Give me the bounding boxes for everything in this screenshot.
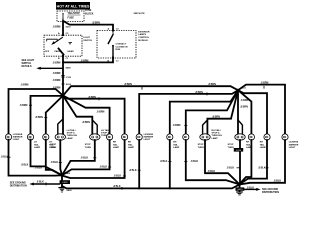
wire G2 to ground <box>239 184 241 191</box>
wire J1 to lamp E5 <box>63 96 92 137</box>
lamp E10 tail <box>183 133 189 140</box>
lamp E7 tail <box>122 133 128 140</box>
power header HOT AT ALL TIMES <box>56 2 90 10</box>
svg-text:STOP: STOP <box>85 144 91 146</box>
wire J2 to lamp E14 <box>238 90 267 137</box>
pin A C2 at module top <box>108 27 120 31</box>
svg-text:DISTRIBUTION: DISTRIBUTION <box>10 185 27 188</box>
wire lamp E1 to ground junction G1 <box>9 140 63 176</box>
svg-text:TAIL: TAIL <box>34 143 39 146</box>
wire lamp E11 to ground junction G2 <box>205 140 240 184</box>
svg-text:LAMPS: LAMPS <box>138 33 146 36</box>
wire J2 trunk to lamp E12 <box>237 90 239 134</box>
wire J1 to lamp E3 <box>46 96 63 137</box>
svg-text:LAMP: LAMP <box>128 146 135 149</box>
wire label .8 BRN <box>195 91 207 96</box>
lamp E3 label <box>49 142 56 149</box>
lamp E13 label <box>246 142 253 149</box>
svg-text:.8 BRN: .8 BRN <box>21 84 29 87</box>
switch position labels <box>45 50 74 53</box>
wire G1 to ground <box>61 175 63 187</box>
svg-text:LAMP: LAMP <box>212 137 219 140</box>
lamp E4 dual tail/stop <box>55 134 65 140</box>
wire J2 to lamp E13 <box>238 90 251 137</box>
svg-text:.8 BLK: .8 BLK <box>51 161 59 164</box>
lamp E5 stop/turn note <box>85 144 91 149</box>
svg-text:LIGHT: LIGHT <box>13 139 20 141</box>
light switch dashed box <box>44 35 82 56</box>
svg-text:.8 BRN: .8 BRN <box>241 99 249 102</box>
wire label .8 BLK <box>227 166 240 169</box>
wire J1 to lamp E2 <box>31 96 64 137</box>
wire lamp E4 to ground junction G1 <box>60 140 62 175</box>
see ground distribution note right <box>262 188 279 194</box>
wire main trunk down <box>62 56 64 96</box>
svg-text:.8 BRN: .8 BRN <box>35 116 43 119</box>
wire J2 to lamp E8 <box>139 90 238 137</box>
svg-text:G410: G410 <box>237 189 243 191</box>
lamp E1 label <box>13 134 23 141</box>
svg-text:TURN SIG: TURN SIG <box>67 135 78 137</box>
svg-text:LH TAIL/: LH TAIL/ <box>67 129 76 132</box>
svg-text:.8 BRN: .8 BRN <box>97 110 105 113</box>
svg-text:.8 BRN: .8 BRN <box>53 79 61 82</box>
svg-text:MARKER: MARKER <box>289 143 299 146</box>
svg-text:TAIL: TAIL <box>260 143 265 146</box>
svg-text:.8 BLK: .8 BLK <box>258 166 266 169</box>
see ground distribution note left <box>10 181 27 187</box>
wire lamp E2 to ground junction G1 <box>31 140 63 176</box>
wire label .8 BLK <box>129 169 141 172</box>
svg-text:.8 BLK: .8 BLK <box>113 185 121 188</box>
wire fuse to control module (right branch) <box>63 21 113 31</box>
svg-text:C410: C410 <box>236 150 242 152</box>
wire lamp E8 to ground bus <box>138 140 140 188</box>
wire label .8 BRN <box>35 116 47 119</box>
node S410 label <box>62 83 72 86</box>
wire label .8 BRN <box>20 104 33 107</box>
ground symbol right <box>236 192 243 195</box>
svg-text:LICENSE: LICENSE <box>144 134 154 136</box>
wire lamp E10 to ground junction G2 <box>186 140 240 184</box>
lamp E9 label <box>173 142 180 149</box>
svg-text:.8 BLK: .8 BLK <box>35 167 43 170</box>
svg-text:.8 BRN: .8 BRN <box>195 91 203 94</box>
svg-text:HOT AT ALL TIMES: HOT AT ALL TIMES <box>57 5 90 9</box>
svg-text:TAIL: TAIL <box>128 143 133 146</box>
svg-text:TURN SIG: TURN SIG <box>212 135 223 137</box>
arrow to ground distribution right <box>244 188 260 191</box>
svg-text:RH: RH <box>260 142 264 144</box>
pin A C2 at switch top <box>58 32 69 36</box>
svg-text:TURN: TURN <box>198 147 204 149</box>
ground junction G1 splice S408 <box>61 174 64 177</box>
ground symbol G400 left <box>58 188 72 193</box>
svg-text:RH: RH <box>113 142 117 144</box>
svg-text:.8 BRN: .8 BRN <box>208 83 216 86</box>
lamp E4 label <box>67 129 78 140</box>
svg-text:LIGHT: LIGHT <box>289 147 296 149</box>
svg-text:C100: C100 <box>66 77 72 79</box>
svg-text:EXTERIOR: EXTERIOR <box>138 31 150 33</box>
svg-text:LH TAIL/: LH TAIL/ <box>101 129 110 132</box>
svg-text:MARKER: MARKER <box>144 136 154 139</box>
svg-text:LICENSE: LICENSE <box>289 142 299 144</box>
svg-text:.8 BLK: .8 BLK <box>274 179 282 182</box>
switch SW2 inside module <box>108 31 114 58</box>
connector C420 black tag <box>60 180 70 184</box>
svg-text:LAMP: LAMP <box>260 146 267 149</box>
svg-text:RH TAIL/: RH TAIL/ <box>212 129 221 132</box>
svg-text:TAIL: TAIL <box>113 143 118 146</box>
svg-text:STOP: STOP <box>198 144 204 146</box>
svg-text:CONTROL: CONTROL <box>138 37 149 39</box>
svg-text:.8 BRN: .8 BRN <box>240 106 248 109</box>
svg-text:STOP &: STOP & <box>212 133 220 135</box>
light switch name label <box>83 37 92 42</box>
svg-text:.8 BLK: .8 BLK <box>191 160 199 163</box>
lamp E6 tail <box>107 133 113 140</box>
module contact note <box>116 43 128 52</box>
module name label <box>138 31 150 41</box>
wire J1 trunk to lamp E4 <box>62 96 64 135</box>
svg-text:.8 BLK: .8 BLK <box>208 170 216 173</box>
wire lamp E3 to ground junction G1 <box>46 140 62 176</box>
wire label .8 BLK <box>258 166 269 169</box>
svg-text:.8 BLK: .8 BLK <box>129 169 137 172</box>
svg-text:S409: S409 <box>66 67 72 70</box>
svg-text:LAMP: LAMP <box>67 137 74 140</box>
wire lamp E15 to ground junction G2 <box>240 140 286 185</box>
wire J1 to lamp E7 <box>63 96 125 137</box>
svg-text:.8 BRN: .8 BRN <box>212 116 220 119</box>
svg-text:.8 BRN: .8 BRN <box>53 26 61 29</box>
svg-text:LAMP: LAMP <box>34 146 41 149</box>
lamp E7 label <box>128 142 135 149</box>
svg-text:.8 BLK: .8 BLK <box>21 163 29 166</box>
svg-text:DETAILS: DETAILS <box>22 65 32 68</box>
switch contact HEAD <box>69 43 73 45</box>
lamp E2 label <box>34 142 41 149</box>
lamp E3 tail <box>43 133 49 140</box>
fuse block label <box>85 9 94 15</box>
wire link J1 to J2 <box>63 86 238 95</box>
wire label .8 BLK <box>1 156 11 159</box>
switch wiper to output <box>59 49 64 55</box>
lamp E14 label <box>260 142 267 149</box>
pin B C1 at module bottom <box>108 57 120 63</box>
wire label .8 BLK <box>113 185 122 190</box>
connector C410 on trunk <box>234 148 243 152</box>
lamp E12 dual tail/stop <box>235 134 245 140</box>
svg-text:MODULE: MODULE <box>138 40 148 42</box>
svg-text:LIGHT: LIGHT <box>83 37 90 39</box>
svg-text:STOP: STOP <box>50 144 56 146</box>
wire lamp E11 second filament lead <box>203 120 208 135</box>
svg-text:CONTACT: CONTACT <box>116 43 127 46</box>
wire J2 to lamp E11 <box>207 90 238 137</box>
wire label .8 BLK <box>51 161 62 164</box>
wire label .8 BLK <box>160 160 172 163</box>
wire label .8 BLK <box>100 166 112 169</box>
svg-text:CLOSED IN: CLOSED IN <box>116 46 128 48</box>
wire J1 to lamp E1 (left rail) <box>9 89 64 137</box>
lamp E11 dual tail/stop <box>200 134 210 140</box>
svg-text:FUSE: FUSE <box>68 17 75 20</box>
svg-text:RH: RH <box>173 142 177 144</box>
svg-text:RUN: RUN <box>116 49 121 51</box>
control module dashed box <box>97 31 136 59</box>
wire lamp E5 second filament lead <box>92 120 97 135</box>
arrow to light switch details <box>36 67 63 70</box>
lamp E8 label <box>144 134 154 141</box>
svg-text:.8 BLK: .8 BLK <box>114 175 122 178</box>
lamp E5 dual tail/stop <box>90 134 100 140</box>
connector G410 black tag <box>236 187 245 191</box>
ground bus wire G1 to G2 <box>62 185 240 189</box>
wire lamp E4 second filament lead <box>58 119 63 135</box>
lamp E6 label <box>113 142 120 149</box>
svg-text:.8 BRN: .8 BRN <box>53 72 61 75</box>
svg-text:S408: S408 <box>65 172 71 175</box>
wire fuse to light switch <box>62 22 64 36</box>
svg-text:TURN: TURN <box>228 147 234 149</box>
svg-text:RH: RH <box>128 142 132 144</box>
svg-text:BLOCK: BLOCK <box>85 12 94 15</box>
svg-text:TURN: TURN <box>50 147 56 149</box>
svg-text:.8 BRN: .8 BRN <box>261 81 269 84</box>
svg-text:.8 BLK: .8 BLK <box>160 160 168 163</box>
wire label .8 BRN <box>173 124 188 127</box>
pin B C1 at switch bottom <box>58 55 69 60</box>
svg-text:STOP: STOP <box>228 144 234 146</box>
svg-text:.8 BLK: .8 BLK <box>81 156 89 159</box>
wire lamp E6 to ground junction G1 <box>62 140 110 175</box>
wire label .8 BRN <box>261 81 269 88</box>
wire label .8 BLK <box>184 160 198 163</box>
lamp E11 label <box>212 129 223 140</box>
svg-text:MARKER: MARKER <box>13 136 23 139</box>
svg-text:SWITCH: SWITCH <box>83 40 92 42</box>
wire label .8 BLK <box>36 181 46 186</box>
svg-text:.8 BRN: .8 BRN <box>173 124 181 127</box>
junction J1 splice <box>62 94 65 97</box>
wire lamp E12 trunk to ground junction G2 <box>239 140 241 184</box>
lamp E14 tail <box>264 133 270 140</box>
wire J2 to lamp E9 <box>170 90 238 137</box>
fuse block dashed box <box>57 11 84 22</box>
wire label .8 BLK <box>81 156 97 159</box>
svg-text:.8 BLK: .8 BLK <box>247 186 255 189</box>
svg-text:TAIL: TAIL <box>173 143 178 146</box>
wire J2 to lamp E10 <box>186 90 238 137</box>
wire label .8 BRN <box>124 83 142 90</box>
lamp E11 stop/turn note <box>198 144 204 149</box>
wire J2 to lamp E15 (right rail) <box>238 85 285 137</box>
wire module return to trunk <box>63 58 113 62</box>
see light switch details note <box>22 59 35 68</box>
wire label .8 BLK <box>114 175 126 178</box>
wire J1 to lamp E6 <box>63 96 110 137</box>
wire lamp E14 to ground junction G2 <box>240 140 268 184</box>
svg-text:.8 BRN: .8 BRN <box>53 61 61 64</box>
svg-text:.8 BRN: .8 BRN <box>20 104 28 107</box>
lamp E4 stop/turn note <box>50 144 56 149</box>
svg-text:DISTRIBUTION: DISTRIBUTION <box>262 191 279 194</box>
svg-text:LH: LH <box>34 142 37 144</box>
lamp E1 license/marker <box>5 133 11 140</box>
svg-text:SEE NOTE: SEE NOTE <box>134 13 146 15</box>
switch SW1 blade <box>51 37 63 45</box>
svg-text:STOP &: STOP & <box>67 133 75 135</box>
svg-text:S210: S210 <box>66 27 72 29</box>
lamp E13 tail <box>248 133 254 140</box>
lamp E2 tail <box>27 133 33 140</box>
svg-text:LAMP: LAMP <box>173 146 180 149</box>
lamp E15 label <box>289 142 299 149</box>
svg-text:.8 BLK: .8 BLK <box>227 166 235 169</box>
svg-text:LICENSE: LICENSE <box>13 134 23 136</box>
svg-text:.8 BRN: .8 BRN <box>124 83 132 86</box>
ground junction G2 splice S409 <box>238 183 241 186</box>
lamp E8 license/marker <box>136 133 142 140</box>
svg-text:.8 BLK: .8 BLK <box>36 181 44 184</box>
svg-text:.8 BRN: .8 BRN <box>88 96 96 99</box>
svg-text:TURN: TURN <box>85 147 91 149</box>
lamp E12 stop/turn note <box>228 144 234 149</box>
svg-text:HEAD: HEAD <box>68 50 75 53</box>
lamp E5 label <box>101 129 110 137</box>
wire lamp E7 to ground junction G1 <box>62 140 125 178</box>
svg-text:.8 BRN: .8 BRN <box>81 59 89 62</box>
switch SW1 contact loop <box>47 39 58 41</box>
svg-text:.8 BRN: .8 BRN <box>82 121 90 124</box>
svg-text:OFF: OFF <box>45 51 50 53</box>
arrow to ground distribution left <box>29 183 59 186</box>
wire label .8 BRN <box>88 96 99 100</box>
wire lamp E5 to ground junction G1 <box>62 140 95 175</box>
junction J2 splice <box>237 89 240 92</box>
svg-text:.8 BLK: .8 BLK <box>100 166 108 169</box>
svg-text:TAIL/STOP: TAIL/STOP <box>68 12 81 15</box>
fuse value label <box>68 12 81 19</box>
svg-text:.8 BRN: .8 BRN <box>92 21 100 24</box>
svg-text:G400: G400 <box>66 189 72 192</box>
connector C100 <box>61 75 72 78</box>
svg-text:C420: C420 <box>62 182 68 184</box>
wire lamp E12 second filament lead <box>238 120 242 135</box>
fuse F1 TAIL/STOP <box>62 13 63 20</box>
svg-text:RH: RH <box>246 142 250 144</box>
wire lamp E9 to ground bus <box>169 140 171 188</box>
lamp E15 license/marker <box>282 133 288 140</box>
wire lamp E13 to ground junction G2 <box>240 140 252 184</box>
svg-text:LIGHT: LIGHT <box>144 139 151 141</box>
svg-text:LAMP: LAMP <box>113 146 120 149</box>
lamp E9 tail <box>167 133 173 140</box>
